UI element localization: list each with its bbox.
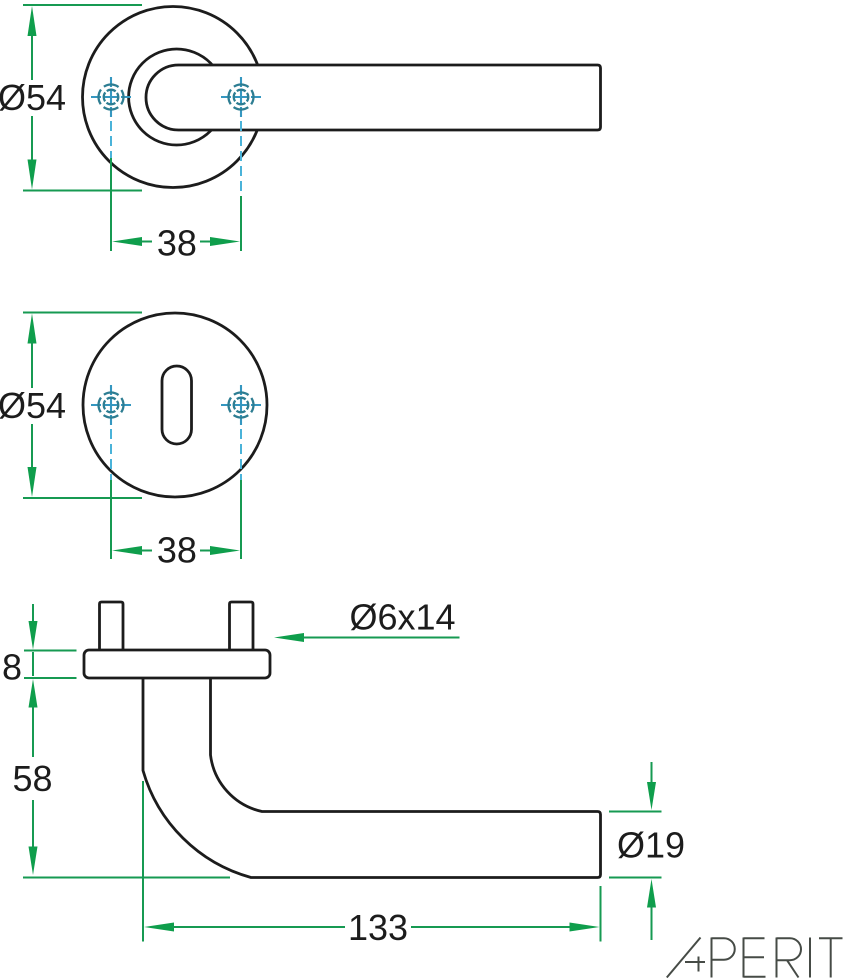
screw hole mark right (middle view) xyxy=(221,385,261,425)
dimension Ø54 (middle view) : bottom extension line xyxy=(23,497,142,499)
dimension Ø19 : top extension line xyxy=(609,811,662,813)
fixing screw post right xyxy=(230,602,254,651)
dimension Ø54 (top view) : bottom extension line xyxy=(23,190,142,192)
dimension Ø54 (middle view) : dimension line with arrows xyxy=(28,314,37,498)
keyhole slot xyxy=(162,366,192,444)
dimension 133 : left extension line xyxy=(142,781,144,942)
logo letter I xyxy=(809,938,811,978)
logo letter R xyxy=(776,938,778,978)
svg-text:Ø6x14: Ø6x14 xyxy=(349,597,455,638)
handle neck and lever (side view) xyxy=(143,677,601,878)
screw hole mark left (top view) xyxy=(91,77,131,117)
dimension 38 (middle view) : left extension line xyxy=(110,480,112,559)
handle lever (top view, stadium shape) xyxy=(146,65,601,130)
dimension 38 (middle view) : right extension line xyxy=(240,480,242,559)
dimension 38 (top view) : left extension line xyxy=(110,158,112,251)
dimension Ø54 (middle view) : top extension line xyxy=(23,312,142,314)
dimension 8 : arrow from above xyxy=(29,604,38,676)
svg-text:38: 38 xyxy=(157,223,197,264)
dimension 38 (middle view) : dimension line with arrows xyxy=(112,546,240,555)
dimension 8 : lower tick line xyxy=(24,677,77,679)
rose plate (side view) xyxy=(84,650,270,678)
fixing screw post left xyxy=(100,602,124,651)
dimension 8 : upper tick line xyxy=(24,650,77,652)
svg-text:Ø54: Ø54 xyxy=(0,385,66,426)
dimension Ø54 (top view) : dimension line with arrows xyxy=(28,6,37,190)
APERIT logo xyxy=(667,938,843,978)
logo letter A xyxy=(667,938,701,978)
rose outer circle xyxy=(83,7,264,188)
dimension Ø19 : bottom extension line xyxy=(609,877,662,879)
centerline left (blue dashed, middle view) xyxy=(110,429,112,480)
logo letter T xyxy=(819,937,843,939)
dimension 58 : dimension line with arrows xyxy=(29,679,38,875)
dimension 38 (top view) : right extension line xyxy=(240,196,242,251)
dimension 38 (top view) : dimension line with arrows xyxy=(112,237,240,246)
svg-text:Ø54: Ø54 xyxy=(0,77,66,118)
svg-text:133: 133 xyxy=(348,907,408,948)
svg-text:38: 38 xyxy=(157,530,197,571)
centerline right (blue dashed, top view) xyxy=(240,121,242,196)
dimension 133 : right extension line xyxy=(600,886,602,942)
svg-text:58: 58 xyxy=(12,758,52,799)
screw hole mark left (middle view) xyxy=(91,385,131,425)
screw hole mark right (top view) xyxy=(221,77,261,117)
dimension 133 : dimension line with arrows xyxy=(144,923,600,932)
logo letter P xyxy=(711,938,713,978)
key rose circle xyxy=(83,313,267,497)
dimension Ø19 : arrow from above xyxy=(647,762,656,810)
rose inner circle (neck ring) xyxy=(129,49,225,145)
dimension Ø54 (top view) : top extension line xyxy=(23,4,142,6)
dimension Ø6x14 : leader arrow xyxy=(274,633,460,642)
svg-text:Ø19: Ø19 xyxy=(617,825,685,866)
centerline right (blue dashed, middle view) xyxy=(240,429,242,480)
dimension Ø19 : arrow from below xyxy=(647,879,656,940)
dimension 58 : bottom extension line xyxy=(23,877,230,879)
logo letter E xyxy=(743,938,745,978)
centerline left (blue dashed, top view) xyxy=(110,121,112,158)
svg-text:8: 8 xyxy=(2,647,22,688)
